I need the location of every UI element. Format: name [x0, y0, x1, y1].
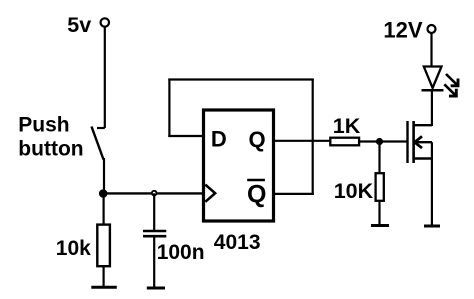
wire source to ground [431, 142, 433, 226]
wire node B down to capacitor C1 [153, 193, 155, 231]
svg-text:button: button [18, 137, 83, 160]
LED D1 cathode bar [422, 89, 444, 92]
node A junction dot [99, 189, 108, 198]
wire capacitor C1 to ground [153, 236, 155, 288]
ground for Q1 source [424, 225, 440, 228]
ground for R3 [371, 224, 389, 227]
svg-text:Push: Push [18, 114, 69, 137]
transistor Q1 arrowhead [415, 137, 421, 147]
svg-text:5v: 5v [67, 13, 91, 37]
svg-text:D: D [211, 127, 227, 152]
capacitor C1 100n top plate [143, 230, 166, 233]
LED D1 triangle [424, 67, 442, 89]
wire feedback into D input [168, 135, 203, 137]
LED D1 emission arrow 2 [444, 84, 456, 96]
resistor R2 1K body [330, 138, 359, 146]
svg-text:10K: 10K [334, 179, 374, 203]
transistor Q1 source stub [414, 157, 432, 159]
wire feedback top horizontal [168, 78, 313, 80]
wire node A down to resistor R1 [102, 194, 104, 225]
svg-text:4013: 4013 [214, 231, 261, 254]
switch SW1 top contact tick [97, 127, 105, 129]
wire feedback left drop [168, 79, 170, 138]
resistor R3 10K body [376, 173, 384, 201]
resistor R1 10k body [97, 225, 110, 267]
wire LED cathode to drain [431, 90, 433, 126]
wire Q output to resistor R2 [275, 140, 330, 142]
transistor Q1 channel bar [412, 121, 415, 163]
wire feedback Q-bar output to vertical riser [275, 193, 314, 195]
terminal 5V supply [101, 18, 109, 26]
overbar for Q-bar [247, 179, 265, 182]
wire switch bottom to node A [103, 158, 105, 195]
terminal 12V supply [428, 25, 436, 33]
svg-text:12V: 12V [383, 18, 422, 43]
wire node C down to resistor R3 [378, 142, 380, 173]
node B capacitor tap [152, 191, 157, 196]
wire resistor R3 to ground [378, 202, 380, 226]
switch SW1 lever [92, 127, 104, 160]
clock input triangle on U1 [205, 185, 215, 202]
IC U1 4013 body [204, 110, 274, 221]
svg-text:Q: Q [249, 127, 266, 152]
ground for C1 [147, 287, 165, 290]
LED D1 emission arrow 1 [446, 74, 458, 86]
transistor Q1 body stub with arrow [415, 141, 432, 143]
svg-text:100n: 100n [157, 241, 205, 264]
wire resistor R2 to gate node [359, 140, 408, 142]
node C gate junction dot [376, 138, 383, 145]
wire resistor R1 to ground [102, 267, 104, 288]
transistor Q1 gate bar [406, 121, 408, 163]
transistor Q1 drain stub [414, 124, 432, 126]
capacitor C1 100n bottom plate [143, 235, 166, 238]
wire 5V terminal to switch top contact [104, 27, 106, 128]
svg-text:Q: Q [247, 180, 266, 208]
svg-text:1K: 1K [333, 114, 361, 138]
wire node A to clock input of U1 [103, 192, 204, 194]
svg-text:10k: 10k [56, 237, 91, 260]
wire 12V terminal to LED anode [430, 33, 432, 67]
wire feedback vertical riser [312, 79, 314, 196]
ground for R1 [91, 286, 117, 289]
